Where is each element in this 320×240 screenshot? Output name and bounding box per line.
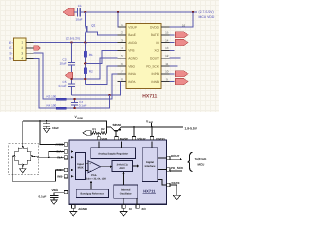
svg-text:PD_SCK: PD_SCK [171, 166, 184, 170]
chip right pins DOUT PD_SCK RATE [158, 154, 184, 187]
net label V_AVDD [75, 115, 84, 120]
svg-text:Digital: Digital [146, 161, 154, 164]
svg-text:(2.6-5.2V): (2.6-5.2V) [66, 37, 80, 41]
svg-text:10uF: 10uF [59, 61, 66, 65]
svg-text:10uF: 10uF [52, 126, 59, 130]
resistor R4 100 [47, 104, 67, 109]
svg-text:R4 100: R4 100 [47, 104, 57, 108]
svg-text:1: 1 [21, 41, 23, 45]
wire RATE to ground [170, 185, 180, 200]
HX711 block diagram chip body [69, 140, 167, 204]
svg-text:XI: XI [129, 207, 132, 211]
net label V_SUP [146, 119, 154, 124]
wire Q1 base to pin2 BasE [88, 32, 118, 35]
svg-text:AVDD: AVDD [128, 41, 137, 45]
svg-text:HX711: HX711 [143, 189, 156, 194]
block: Bandgap Reference [76, 189, 108, 197]
svg-text:Oscillator: Oscillator [120, 192, 132, 195]
svg-text:Analog Supply Regulator: Analog Supply Regulator [98, 152, 128, 155]
internal signal arrows [86, 142, 152, 190]
svg-text:AGND: AGND [128, 57, 138, 61]
U1 right pin stubs 16-9 with numbers and names [146, 23, 185, 84]
svg-text:VBG: VBG [52, 188, 59, 192]
wire VAVDD rail [23, 120, 107, 127]
svg-text:E+: E+ [9, 41, 13, 45]
svg-text:S-: S- [9, 51, 12, 55]
capacitor 0.1uF on VBG [39, 193, 65, 205]
brace and To/From MCU [188, 152, 207, 171]
svg-text:DOUT: DOUT [171, 154, 180, 158]
wire bridge top to VAVDD rail [22, 121, 24, 146]
svg-text:E-: E- [9, 46, 12, 50]
resistor R1 [84, 43, 93, 58]
capacitor C5 [59, 80, 75, 95]
transistor Q1 (S8550 PNP) [85, 12, 95, 43]
op-amp PGA [85, 161, 106, 181]
svg-text:Internal: Internal [121, 189, 131, 192]
svg-text:R3 100: R3 100 [47, 95, 57, 99]
bridge ground [20, 167, 27, 173]
svg-text:INPA: INPA [128, 80, 136, 84]
pin 13,12,11 stub extensions [170, 50, 181, 66]
svg-text:MUX: MUX [78, 166, 84, 169]
svg-text:INPB: INPB [152, 72, 159, 76]
capacitor C4 [71, 98, 86, 109]
svg-text:BASE: BASE [120, 137, 128, 141]
svg-text:INNA: INNA [128, 72, 136, 76]
block: 24-bit ADC [112, 161, 133, 172]
schematic sheet background grid [0, 0, 219, 112]
svg-text:0.1uF: 0.1uF [39, 195, 47, 199]
transistor Q (S8550) bottom diagram [107, 123, 122, 136]
wire AGND net to pin5 [70, 58, 117, 80]
svg-text:XO: XO [141, 207, 146, 211]
svg-text:24-bit ΣΔ: 24-bit ΣΔ [117, 163, 128, 166]
svg-text:2: 2 [21, 46, 23, 50]
svg-text:PD_SCK: PD_SCK [146, 64, 160, 68]
svg-text:0.1uF: 0.1uF [59, 84, 67, 88]
svg-text:AVDD: AVDD [77, 117, 83, 120]
svg-text:R1: R1 [89, 53, 93, 57]
svg-text:12: 12 [165, 54, 169, 58]
net arrow VAVDD (open) [83, 131, 91, 136]
svg-text:VBG: VBG [128, 64, 135, 68]
label HX711 [143, 189, 157, 194]
svg-text:13: 13 [165, 46, 169, 50]
chip top pins BASE VSUP DVDD [115, 137, 166, 142]
svg-text:VSUP: VSUP [128, 25, 137, 29]
load cell Wheatstone bridge (dashed box) [9, 144, 39, 175]
wire pin16 DVDD to rail [170, 12, 194, 27]
chip bottom pins AGND XI XO with grounds [70, 198, 147, 216]
wire E+ / AVDD net [34, 41, 118, 43]
svg-text:BasE: BasE [128, 33, 136, 37]
VCC supply port (left arrow) [63, 8, 74, 15]
svg-text:10uF: 10uF [76, 17, 83, 21]
HX711 IC U1 body [126, 24, 161, 100]
svg-text:+: + [89, 162, 91, 166]
svg-text:S+: S+ [9, 57, 13, 61]
block: Analog Supply Regulator [91, 148, 136, 159]
svg-text:Bandgap Reference: Bandgap Reference [81, 193, 105, 196]
svg-text:-: - [90, 169, 91, 173]
svg-text:RATE: RATE [172, 181, 180, 185]
capacitor 10uF with ground [43, 121, 59, 132]
wire S- from connector [34, 53, 118, 99]
resistor R3 100 [47, 95, 67, 100]
wire bridge to INB+ [12, 156, 64, 181]
block: Input MUX [76, 153, 86, 180]
wire VSUP rail [84, 11, 197, 13]
svg-text:DVDD: DVDD [156, 137, 165, 141]
wire pin1 VSUP to rail [117, 12, 120, 27]
svg-text:10: 10 [165, 70, 169, 74]
svg-text:HX711: HX711 [142, 94, 157, 100]
block: Digital Interface [142, 148, 158, 182]
svg-text:Interface: Interface [145, 165, 156, 168]
ports P-RATE P-XI P-INPB P-INNB (red arrows on pins 15,14,10,9) [170, 32, 189, 85]
svg-text:DVDD: DVDD [150, 25, 160, 29]
svg-text:S8550: S8550 [113, 123, 122, 127]
port E- (red arrow) [34, 46, 41, 51]
svg-text:INB-: INB- [57, 175, 63, 179]
capacitor C1 [74, 4, 85, 21]
svg-text:R2: R2 [101, 127, 105, 131]
svg-text:MCU: MCU [198, 163, 205, 167]
U1 left pin stubs 1-8 with numbers and names [118, 23, 139, 84]
svg-text:AGND: AGND [78, 207, 88, 211]
svg-text:DOUT: DOUT [150, 57, 159, 61]
wire bridge to INA+ [48, 152, 64, 159]
wire VSUP rail to 1.8-5.5V [121, 123, 183, 137]
port AGND (left red arrow) [66, 72, 73, 78]
svg-text:1.8-5.5V: 1.8-5.5V [185, 126, 198, 130]
wire VBG net to pin6 [85, 66, 117, 85]
wire S+ / C5 node to pin8 INPA [71, 82, 120, 97]
svg-text:Input: Input [77, 163, 84, 166]
pin VFB [97, 132, 107, 141]
svg-text:VFB: VFB [101, 137, 107, 141]
svg-text:MCU VDD: MCU VDD [199, 15, 215, 19]
svg-text:RATE: RATE [151, 33, 159, 37]
DOUT PD_SCK arrows to MCU [169, 158, 183, 172]
wire AVDD pin from rail [40, 121, 64, 145]
wire S+ from connector [34, 59, 110, 109]
svg-text:VSUP: VSUP [137, 137, 145, 141]
svg-text:XO: XO [154, 49, 159, 53]
resistor R1 (block diagram) [91, 127, 98, 135]
connector J1 (load cell E+ E- S- S+) [9, 38, 34, 61]
svg-text:0.1uF: 0.1uF [79, 104, 87, 108]
block: Internal Oscillator [114, 185, 138, 198]
svg-text:To/From: To/From [195, 157, 207, 161]
svg-text:4: 4 [21, 57, 23, 61]
svg-text:3: 3 [21, 51, 23, 55]
svg-text:VFB: VFB [128, 49, 134, 53]
svg-text:14: 14 [165, 38, 169, 42]
svg-text:ADC: ADC [119, 167, 125, 170]
resistor R2 [84, 68, 93, 85]
svg-text:R1: R1 [92, 127, 96, 131]
net label (2.7-5.5V) MCU VDD [199, 10, 215, 19]
svg-text:11: 11 [165, 62, 168, 66]
svg-text:15: 15 [165, 31, 169, 35]
wire bridge to INA- [34, 155, 65, 158]
capacitor C3 [59, 43, 74, 84]
svg-text:R2: R2 [89, 70, 93, 74]
wire VFB: R1/R2 junction to pin4 [84, 50, 117, 67]
chip left pins AVDD INA+ INA- INB+ INB- VBG [52, 143, 74, 194]
svg-text:(2.7-5.5V): (2.7-5.5V) [199, 10, 214, 14]
resistor R2 (block diagram) [99, 127, 106, 135]
svg-text:C1: C1 [78, 4, 82, 8]
svg-text:SUP: SUP [149, 121, 154, 124]
svg-text:Gain = 32, 64, 128: Gain = 32, 64, 128 [85, 177, 106, 180]
svg-text:INNB: INNB [151, 80, 159, 84]
svg-text:XI: XI [156, 41, 159, 45]
svg-text:Q1: Q1 [91, 23, 95, 27]
